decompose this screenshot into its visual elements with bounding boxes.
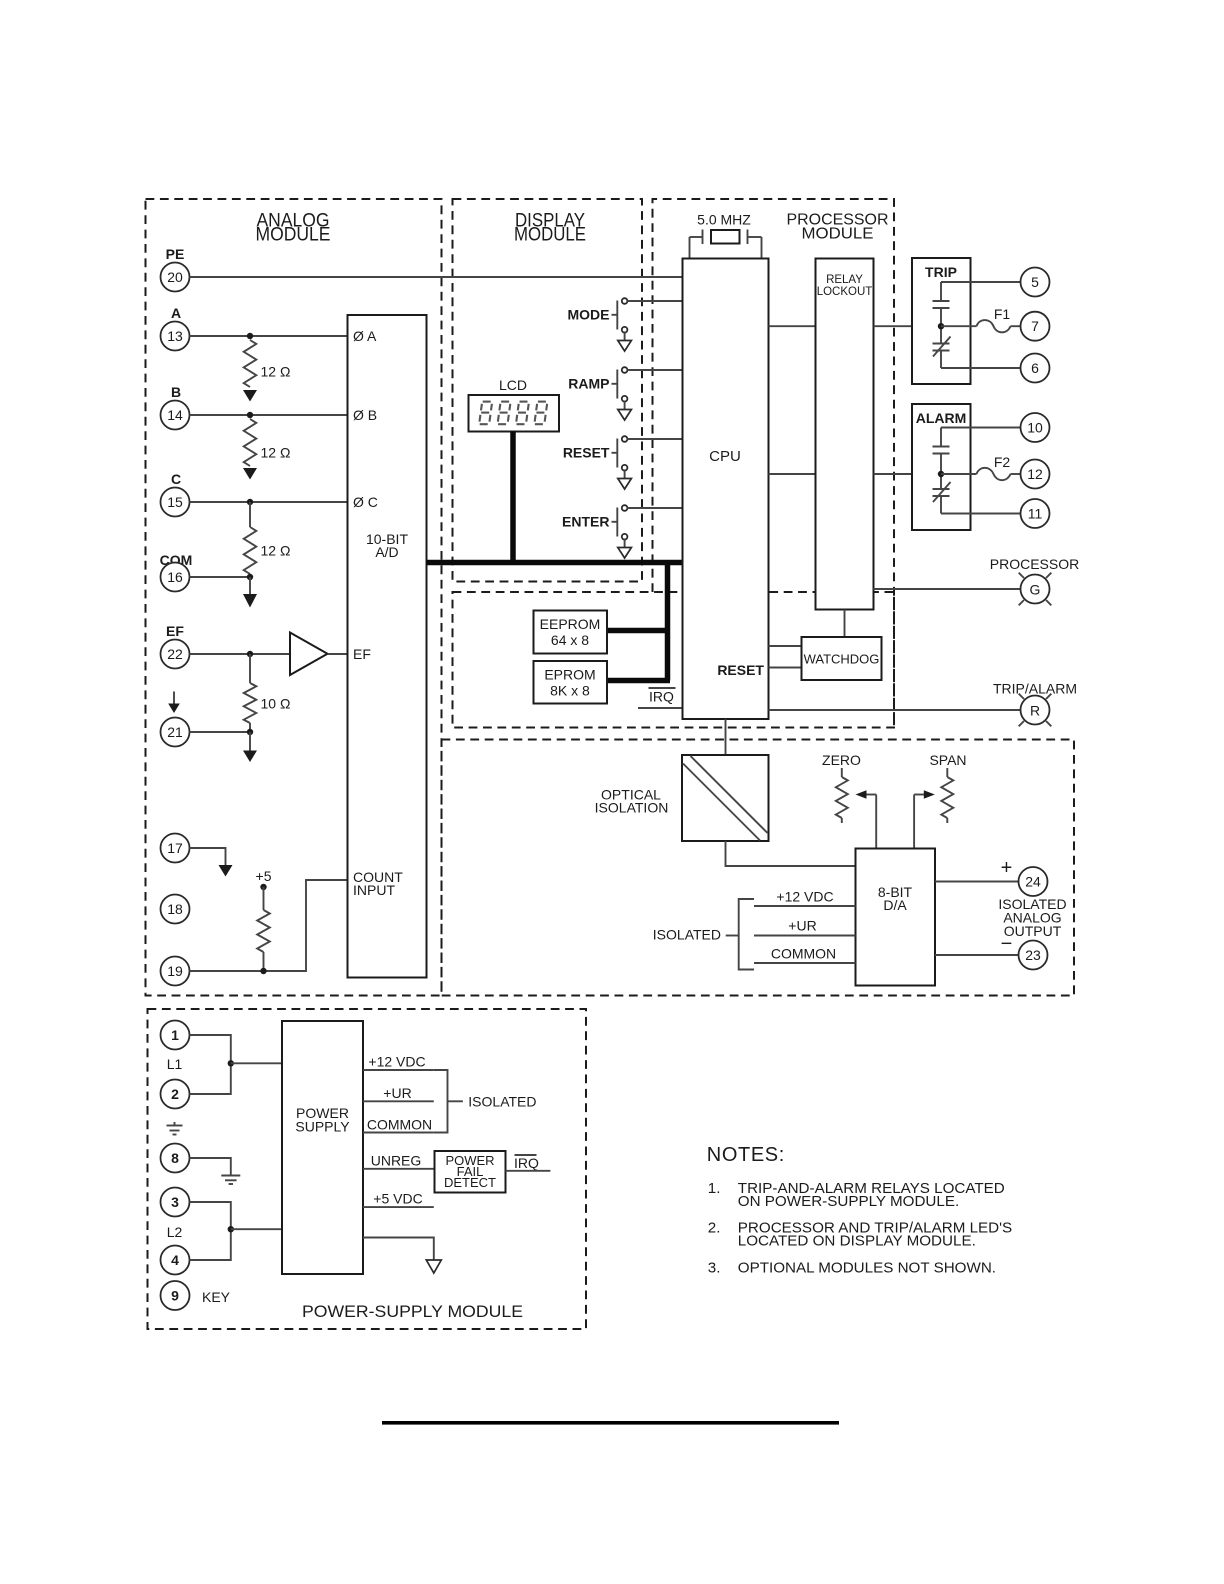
svg-text:PROCESSOR: PROCESSOR — [990, 556, 1079, 572]
svg-text:D/A: D/A — [883, 897, 907, 913]
svg-text:21: 21 — [167, 724, 183, 740]
svg-text:ISOLATION: ISOLATION — [595, 800, 669, 816]
arrow below resistor A — [243, 390, 257, 402]
wire +12 VDC output — [363, 1069, 434, 1071]
svg-text:12 Ω: 12 Ω — [261, 543, 291, 559]
A/D converter block — [348, 315, 427, 978]
terminal 1 — [161, 1021, 190, 1050]
wire 13 to A/D — [190, 335, 348, 337]
svg-text:EF: EF — [353, 646, 371, 662]
arrow below node 21 — [243, 751, 257, 763]
svg-text:L1: L1 — [167, 1056, 183, 1072]
LCD display box — [469, 395, 560, 432]
svg-text:ISOLATED: ISOLATED — [468, 1094, 536, 1110]
wire resistor C to COM node — [249, 574, 251, 577]
wire terminal 8 to ground — [190, 1158, 231, 1176]
svg-text:ZERO: ZERO — [822, 752, 861, 768]
lamp R trip/alarm — [1021, 696, 1050, 725]
wire alarm to terminal 11 — [941, 513, 1021, 515]
wire trip to terminal 6 — [941, 367, 1021, 369]
svg-text:64 x 8: 64 x 8 — [551, 632, 589, 648]
terminal 19 — [161, 957, 190, 986]
alarm contact wiring — [933, 428, 951, 514]
terminal 10 — [1021, 413, 1050, 442]
wire D/A to terminal 24 — [935, 881, 1019, 883]
wire 22 to amplifier — [190, 653, 291, 655]
svg-text:14: 14 — [167, 407, 183, 423]
wire resistor to node 19 — [263, 952, 265, 971]
wire COMMON output — [363, 1132, 434, 1134]
svg-text:22: 22 — [167, 646, 183, 662]
wire +12 VDC to D/A — [754, 905, 856, 907]
processor module dashed border — [653, 199, 895, 728]
wire IRQ output — [506, 1170, 551, 1172]
optical isolation block — [682, 755, 769, 841]
svg-text:23: 23 — [1025, 947, 1041, 963]
wire ZERO wiper to D/A — [875, 795, 877, 849]
terminal 21 — [161, 718, 190, 747]
node A junction — [247, 333, 253, 339]
data bus A/D to CPU — [427, 560, 683, 566]
svg-text:5.0 MHZ: 5.0 MHZ — [697, 212, 751, 228]
svg-text:ALARM: ALARM — [916, 410, 967, 426]
svg-text:Ø C: Ø C — [353, 494, 378, 510]
optical isolation diagonals — [691, 756, 768, 833]
bus branch to EPROM — [607, 678, 670, 684]
terminal 17 — [161, 834, 190, 863]
node C junction — [247, 499, 253, 505]
chassis ground symbol left — [174, 1122, 176, 1126]
svg-text:IRQ: IRQ — [514, 1155, 539, 1171]
earth ground symbol — [221, 1175, 240, 1177]
wire alarm to terminal 10 — [941, 427, 1021, 429]
svg-text:RESET: RESET — [563, 445, 610, 461]
arrow below COM node — [243, 594, 257, 608]
svg-text:A/D: A/D — [375, 544, 398, 560]
svg-text:12: 12 — [1027, 466, 1043, 482]
wire +UR to D/A — [754, 935, 856, 937]
svg-text:LCD: LCD — [499, 377, 527, 393]
alarm block — [912, 404, 971, 530]
svg-text:MODULE: MODULE — [802, 226, 874, 243]
svg-text:Ø A: Ø A — [353, 328, 377, 344]
arrow above terminal 21 — [173, 692, 175, 704]
output section dashed border — [442, 740, 1075, 996]
EEPROM block — [534, 611, 608, 654]
node B junction — [247, 412, 253, 418]
svg-text:2: 2 — [171, 1086, 179, 1102]
wire 21 node down — [249, 732, 251, 751]
ZERO wiper arrow — [866, 794, 876, 796]
arrow below resistor B — [243, 468, 257, 480]
wire UNREG — [363, 1168, 435, 1170]
wire ground output — [363, 1238, 434, 1261]
svg-text:RESET: RESET — [717, 662, 764, 678]
node 19 junction — [260, 968, 266, 974]
wire relay lockout to alarm — [874, 473, 913, 475]
wire 19 to count input — [190, 880, 348, 971]
svg-text:5: 5 — [1031, 274, 1039, 290]
node L1 — [228, 1060, 234, 1066]
fuse F2 — [977, 468, 1011, 480]
terminal 11 — [1021, 499, 1050, 528]
svg-text:MODULE: MODULE — [256, 225, 331, 246]
terminal 13 — [161, 322, 190, 351]
svg-text:A: A — [171, 305, 181, 321]
wire ENTER to CPU — [627, 507, 682, 509]
relay lockout block — [816, 259, 874, 610]
svg-text:CPU: CPU — [709, 448, 741, 465]
svg-text:6: 6 — [1031, 360, 1039, 376]
watchdog block — [802, 637, 882, 680]
isolated bracket power supply — [434, 1070, 448, 1133]
wire 21 to node — [190, 731, 251, 733]
alarm node — [938, 471, 944, 477]
terminal 8 — [161, 1144, 190, 1173]
wire CPU to trip/alarm lamp — [769, 709, 1021, 711]
svg-text:NOTES:: NOTES: — [707, 1144, 785, 1166]
memory section dashed border — [453, 592, 895, 728]
wire terminal 4 — [190, 1229, 231, 1260]
svg-text:+: + — [1001, 857, 1013, 879]
svg-text:SPAN: SPAN — [929, 752, 966, 768]
svg-text:3: 3 — [171, 1194, 179, 1210]
svg-text:1: 1 — [171, 1027, 179, 1043]
svg-text:L2: L2 — [167, 1224, 183, 1240]
svg-text:KEY: KEY — [202, 1289, 231, 1305]
svg-text:12 Ω: 12 Ω — [261, 445, 291, 461]
svg-text:19: 19 — [167, 963, 183, 979]
wire relay lockout to watchdog — [844, 610, 846, 638]
svg-text:SUPPLY: SUPPLY — [295, 1119, 350, 1135]
wire L2 to power supply — [231, 1228, 282, 1230]
wire +UR output — [363, 1100, 434, 1102]
svg-text:LOCKOUT: LOCKOUT — [817, 286, 873, 298]
svg-text:MODULE: MODULE — [514, 225, 586, 246]
resistor 12ohm A — [244, 340, 257, 387]
wire alarm node to fuse — [941, 473, 977, 475]
isolated bracket D/A — [739, 899, 754, 970]
wire terminal 2 — [190, 1063, 231, 1094]
svg-text:3.: 3. — [708, 1260, 721, 1277]
resistor 10ohm lead — [249, 654, 251, 683]
wire COMMON to D/A — [754, 962, 856, 964]
svg-text:F2: F2 — [994, 454, 1011, 470]
wire 17 bend — [190, 848, 226, 865]
EPROM block — [534, 661, 608, 704]
pushbutton RAMP — [568, 367, 631, 420]
node L2 — [228, 1226, 234, 1232]
terminal 22 — [161, 640, 190, 669]
svg-text:+UR: +UR — [788, 918, 816, 934]
terminal 14 — [161, 401, 190, 430]
svg-text:8K x 8: 8K x 8 — [550, 683, 590, 699]
terminal 23 — [1019, 941, 1048, 970]
svg-text:13: 13 — [167, 328, 183, 344]
node +5 — [260, 884, 266, 890]
wire relay lockout to trip — [874, 325, 913, 327]
svg-text:G: G — [1030, 582, 1041, 598]
terminal 4 — [161, 1246, 190, 1275]
lamp G processor — [1021, 575, 1050, 604]
resistor 12ohm B — [244, 419, 257, 466]
wire terminal 3 — [190, 1202, 231, 1229]
wire L1 to power supply — [231, 1062, 282, 1064]
svg-text:7: 7 — [1031, 318, 1039, 334]
wire CPU to relay lockout upper — [769, 325, 816, 327]
svg-text:16: 16 — [167, 569, 183, 585]
svg-text:COMMON: COMMON — [367, 1117, 432, 1133]
svg-text:MODE: MODE — [568, 307, 610, 323]
svg-text:15: 15 — [167, 494, 183, 510]
wire MODE to CPU — [627, 300, 682, 302]
svg-text:EEPROM: EEPROM — [540, 616, 601, 632]
svg-text:LOCATED ON DISPLAY MODULE.: LOCATED ON DISPLAY MODULE. — [738, 1233, 976, 1250]
svg-text:R: R — [1030, 703, 1040, 719]
svg-text:F1: F1 — [994, 306, 1011, 322]
svg-text:OUTPUT: OUTPUT — [1004, 923, 1062, 939]
svg-text:C: C — [171, 471, 181, 487]
svg-text:+UR: +UR — [383, 1085, 411, 1101]
svg-text:TRIP/ALARM: TRIP/ALARM — [993, 681, 1077, 697]
svg-text:12 Ω: 12 Ω — [261, 364, 291, 380]
op-amp EF buffer — [290, 633, 328, 676]
resistor 10ohm — [244, 683, 257, 723]
wire 16 to COM node — [190, 576, 251, 578]
pushbutton RESET — [563, 436, 632, 489]
terminal 16 — [161, 563, 190, 592]
SPAN wiper arrow — [914, 794, 924, 796]
svg-text:POWER-SUPPLY MODULE: POWER-SUPPLY MODULE — [302, 1302, 523, 1321]
crystal Y1 — [690, 230, 762, 259]
wire SPAN wiper to D/A — [913, 795, 915, 849]
node COM junction — [247, 574, 253, 580]
potentiometer SPAN — [946, 768, 948, 777]
LCD bus stem — [510, 432, 516, 563]
svg-text:ISOLATED: ISOLATED — [653, 927, 721, 943]
svg-text:UNREG: UNREG — [371, 1153, 422, 1169]
display module dashed border — [453, 199, 643, 582]
svg-text:INPUT: INPUT — [353, 882, 395, 898]
wire resistor 10ohm to node 21 — [249, 723, 251, 732]
terminal 12 — [1021, 460, 1050, 489]
svg-text:−: − — [1001, 933, 1013, 955]
power-supply module dashed border — [148, 1009, 587, 1329]
svg-text:Ø B: Ø B — [353, 407, 377, 423]
svg-text:+12 VDC: +12 VDC — [368, 1054, 425, 1070]
terminal 3 — [161, 1188, 190, 1217]
wire CPU to optical isolation — [725, 719, 727, 755]
svg-text:RELAY: RELAY — [826, 274, 863, 286]
wire COM node down — [249, 577, 251, 594]
power supply block — [282, 1021, 363, 1274]
terminal 20 — [161, 263, 190, 292]
wire +5 VDC output — [363, 1206, 434, 1208]
svg-text:IRQ: IRQ — [649, 689, 674, 705]
LCD seven-segment digits 8888 — [480, 402, 548, 425]
svg-text:17: 17 — [167, 840, 183, 856]
bus branch vertical — [665, 560, 671, 681]
resistor 12ohm C — [244, 527, 257, 574]
pushbutton MODE — [568, 298, 632, 351]
wire CPU to watchdog lower — [769, 667, 802, 669]
wire D/A to terminal 23 — [935, 954, 1019, 956]
D/A converter block — [856, 849, 936, 986]
trip contact wiring — [933, 282, 951, 368]
svg-text:OPTIONAL MODULES NOT SHOWN.: OPTIONAL MODULES NOT SHOWN. — [738, 1260, 996, 1277]
svg-text:11: 11 — [1028, 506, 1043, 522]
svg-text:PE: PE — [166, 246, 185, 262]
wire optical isolation to D/A — [726, 841, 856, 866]
trip block — [912, 258, 971, 384]
wire trip node to fuse — [941, 325, 977, 327]
fuse F1 — [977, 320, 1011, 332]
svg-text:+5 VDC: +5 VDC — [373, 1191, 422, 1207]
svg-text:18: 18 — [167, 901, 183, 917]
svg-text:+5: +5 — [256, 868, 272, 884]
svg-text:9: 9 — [171, 1288, 179, 1304]
svg-text:TRIP: TRIP — [925, 264, 957, 280]
wire PE to CPU — [190, 276, 683, 278]
svg-text:2.: 2. — [708, 1220, 721, 1237]
svg-text:4: 4 — [171, 1252, 179, 1268]
svg-text:EPROM: EPROM — [544, 667, 595, 683]
wire IRQ to CPU — [638, 707, 683, 709]
CPU block U1 — [683, 259, 769, 720]
node 21 junction — [247, 729, 253, 735]
resistor pull-up count input — [257, 910, 270, 952]
terminal 7 — [1021, 312, 1050, 341]
wire C junction to resistor — [249, 502, 251, 527]
wire RAMP to CPU — [627, 369, 682, 371]
potentiometer ZERO — [841, 768, 843, 777]
node EF junction — [247, 651, 253, 657]
terminal 6 — [1021, 354, 1050, 383]
arrow below wire 17 — [219, 865, 233, 877]
terminal 9 — [161, 1281, 190, 1310]
svg-text:ENTER: ENTER — [562, 514, 609, 530]
pushbutton ENTER — [562, 505, 631, 558]
svg-text:8: 8 — [171, 1150, 179, 1166]
svg-text:WATCHDOG: WATCHDOG — [804, 652, 880, 667]
svg-text:EF: EF — [166, 623, 184, 639]
svg-text:RAMP: RAMP — [568, 376, 609, 392]
wire fuse F1 to terminal 7 — [1011, 325, 1021, 327]
svg-text:1.: 1. — [708, 1180, 721, 1197]
analog module dashed border — [146, 199, 442, 996]
terminal 5 — [1021, 268, 1050, 297]
svg-text:10: 10 — [1027, 420, 1043, 436]
power fail detect block — [435, 1151, 506, 1193]
svg-text:20: 20 — [167, 269, 183, 285]
wire fuse F2 to terminal 12 — [1011, 473, 1021, 475]
trip node — [938, 323, 944, 329]
wire amplifier to A/D — [328, 653, 348, 655]
wire CPU to relay lockout lower — [769, 473, 816, 475]
terminal 2 — [161, 1080, 190, 1109]
terminal 15 — [161, 488, 190, 517]
svg-text:B: B — [171, 384, 181, 400]
svg-text:DETECT: DETECT — [444, 1175, 496, 1190]
wire 14 to A/D — [190, 414, 348, 416]
wire trip to terminal 5 — [941, 281, 1021, 283]
wire 15 to A/D — [190, 501, 348, 503]
wire CPU to watchdog upper — [769, 645, 802, 647]
ground arrow output — [426, 1260, 441, 1273]
wire relay lockout to processor lamp — [874, 588, 1021, 590]
bottom rule — [382, 1421, 839, 1425]
bus branch to EEPROM — [607, 628, 670, 634]
wire RESET to CPU — [627, 438, 682, 440]
terminal 24 — [1019, 867, 1048, 896]
terminal 18 — [161, 895, 190, 924]
svg-text:10 Ω: 10 Ω — [261, 696, 291, 712]
svg-text:ON POWER-SUPPLY MODULE.: ON POWER-SUPPLY MODULE. — [738, 1193, 959, 1210]
svg-text:+12 VDC: +12 VDC — [776, 889, 833, 905]
wire terminal 1 — [190, 1035, 231, 1063]
svg-text:24: 24 — [1025, 874, 1041, 890]
wire +5 to resistor — [263, 887, 265, 910]
svg-text:COMMON: COMMON — [771, 946, 836, 962]
